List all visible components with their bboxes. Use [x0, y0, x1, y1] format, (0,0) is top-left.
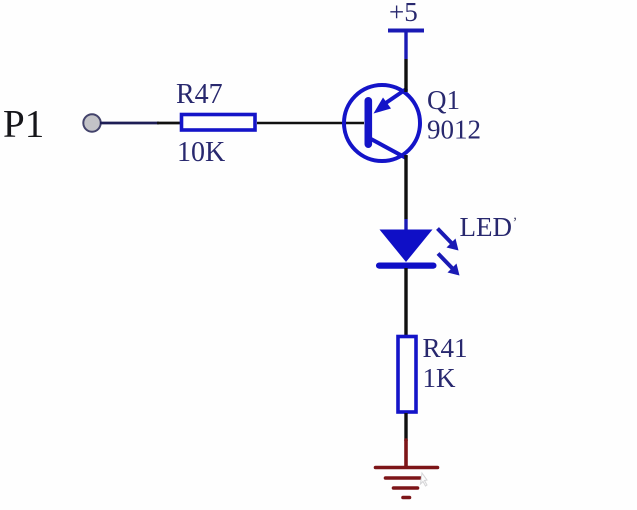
- LED cathode bar: [376, 263, 437, 269]
- wire Q1 collector to LED anode: [404, 155, 407, 219]
- wire +5 to Q1 emitter: [404, 31, 407, 59]
- wire R47 to Q1 base: [257, 122, 364, 125]
- svg-text:R47: R47: [176, 79, 223, 110]
- svg-text:R41: R41: [423, 333, 468, 363]
- cursor artifact near ground: [421, 473, 428, 486]
- ground: [376, 440, 438, 498]
- svg-text:10K: 10K: [177, 137, 225, 168]
- svg-text:’: ’: [513, 215, 518, 231]
- resistor R47: [182, 115, 256, 131]
- transistor Q1 (PNP 9012): [344, 85, 420, 161]
- terminal P1 pin: [83, 114, 100, 131]
- LED emission arrow 2: [438, 254, 460, 276]
- LED LED7 diode triangle: [380, 230, 433, 263]
- resistor R41: [398, 337, 416, 413]
- svg-text:+5: +5: [389, 0, 418, 27]
- svg-text:Q1: Q1: [427, 85, 460, 115]
- svg-text:LED: LED: [460, 212, 512, 242]
- wire P1 to R47: [100, 122, 159, 125]
- LED emission arrow 1: [438, 229, 459, 251]
- svg-text:P1: P1: [3, 103, 44, 146]
- svg-text:1K: 1K: [423, 363, 457, 393]
- power +5 bar: [388, 29, 424, 33]
- wire LED cathode to R41: [404, 268, 407, 336]
- svg-text:9012: 9012: [427, 115, 481, 145]
- wire R41 to ground: [404, 413, 407, 441]
